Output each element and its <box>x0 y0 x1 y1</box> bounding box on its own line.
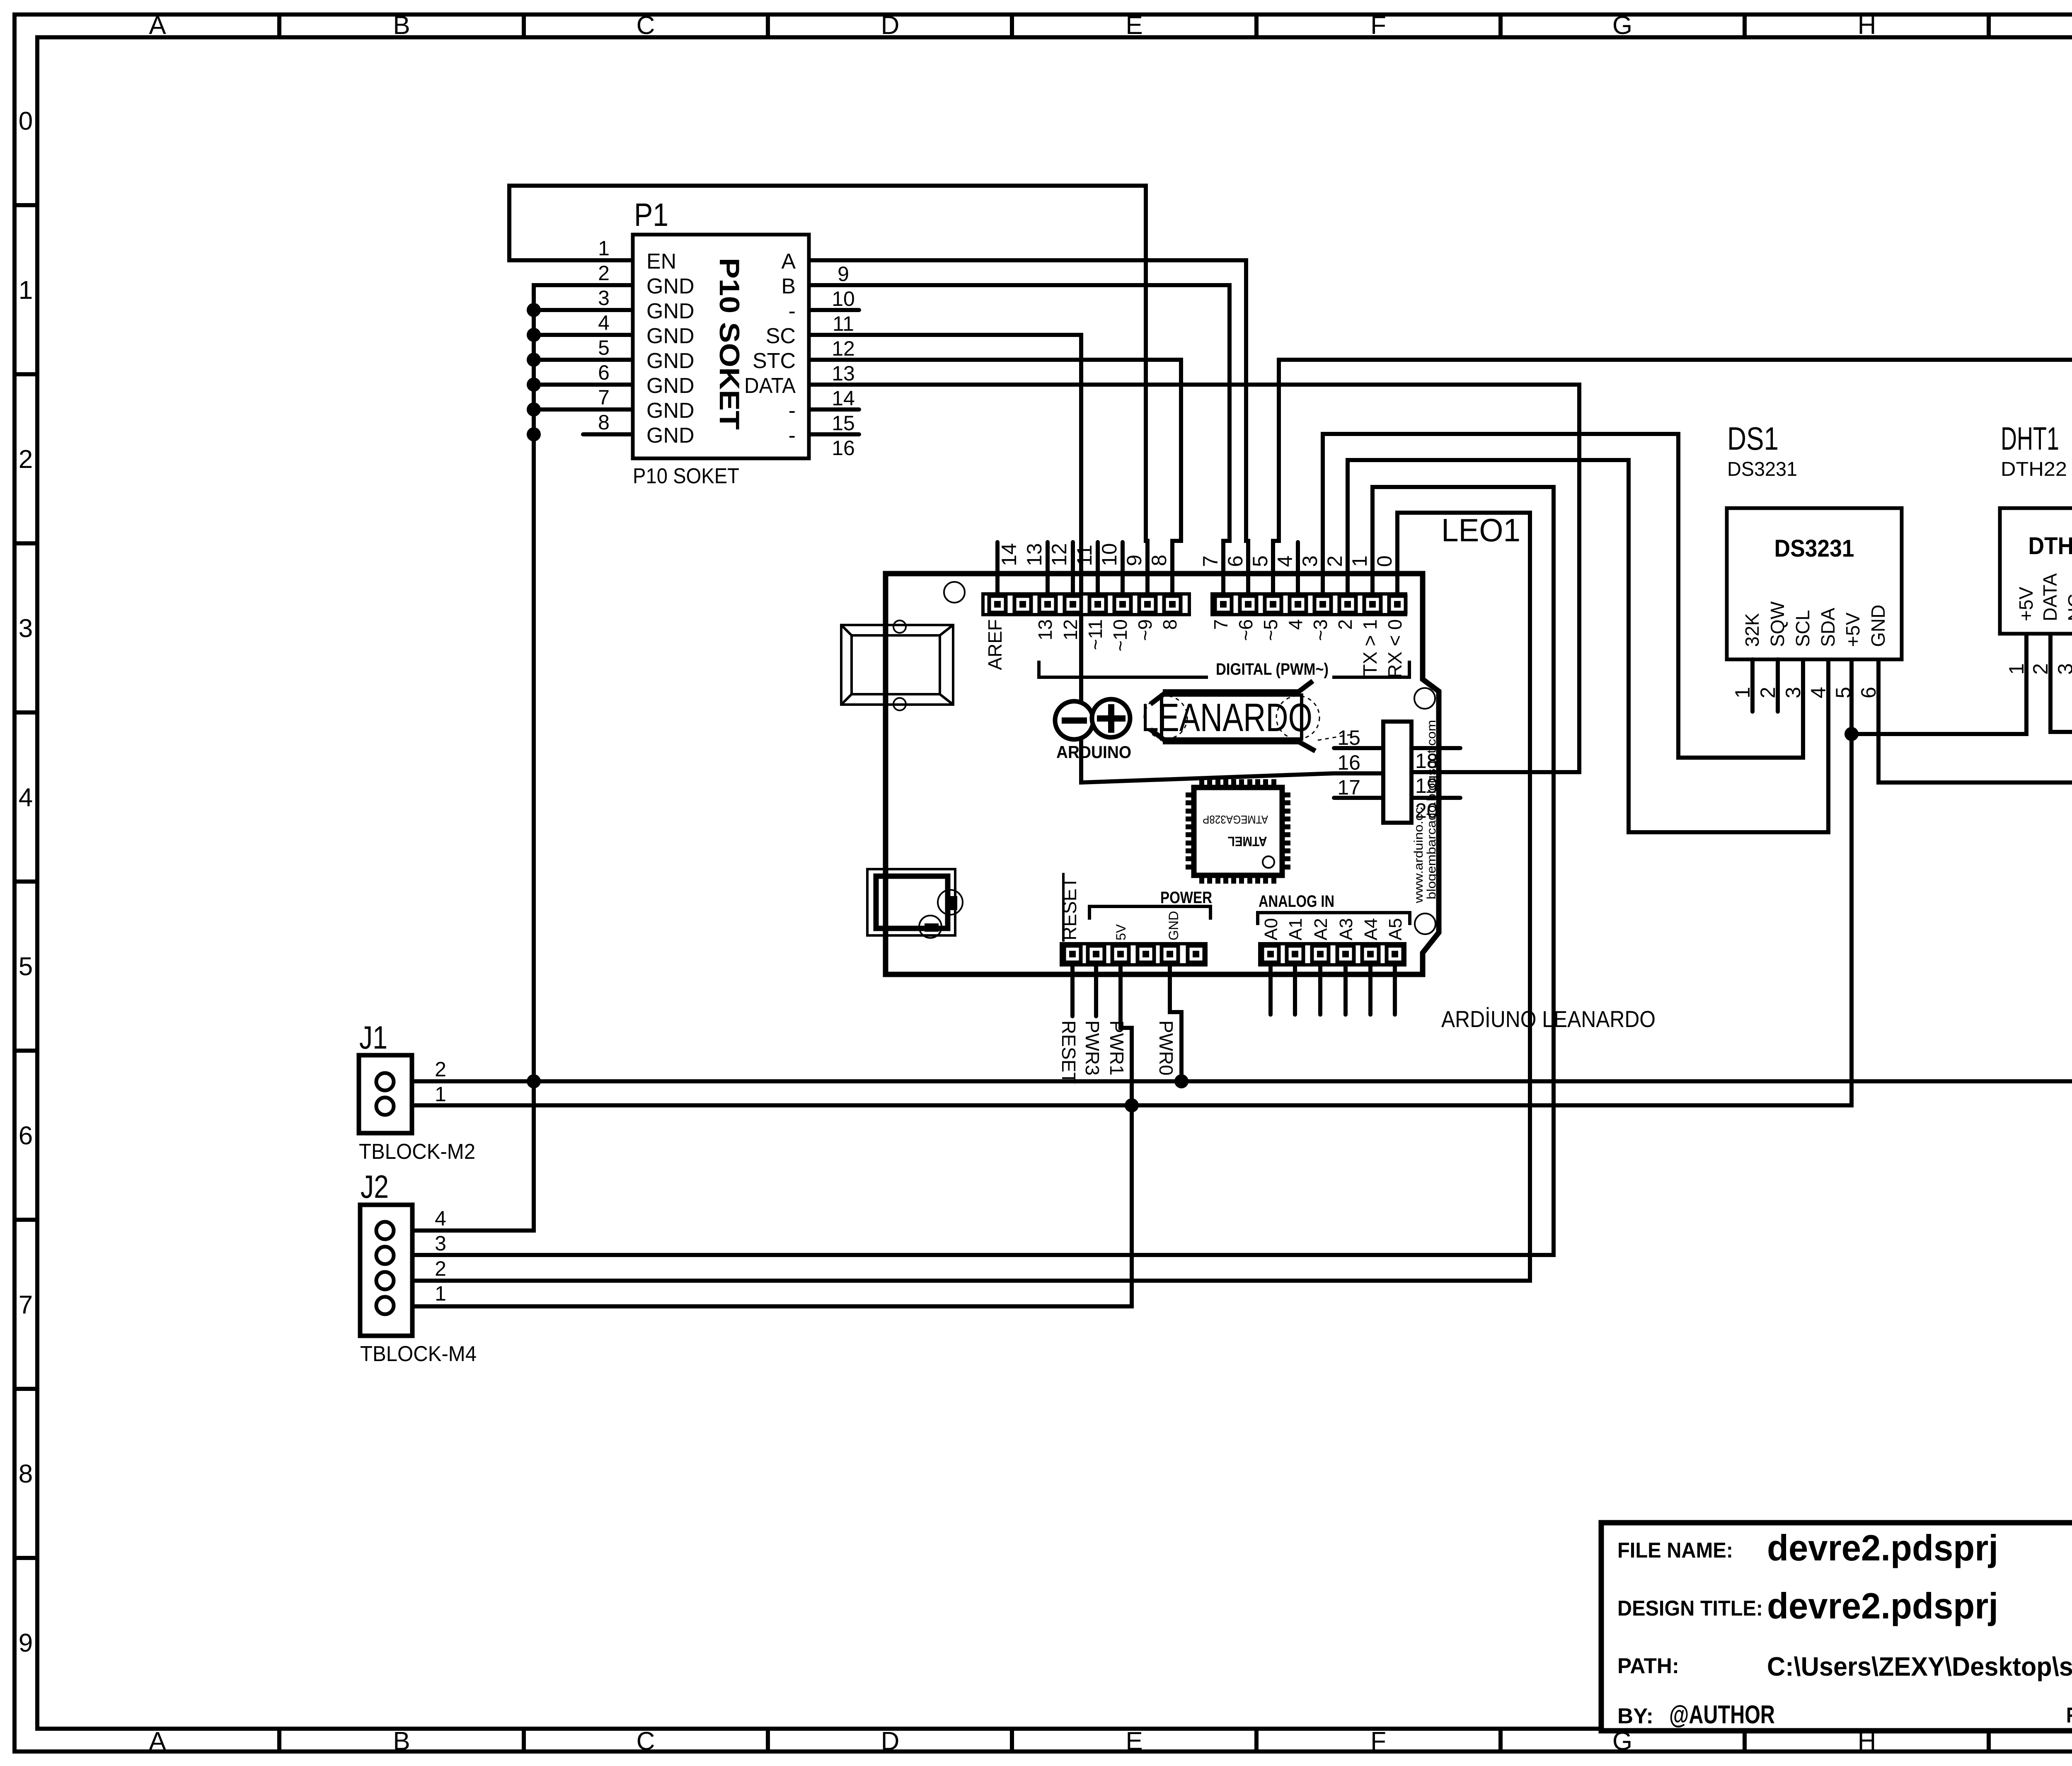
svg-text:DIGITAL (PWM~): DIGITAL (PWM~) <box>1216 660 1329 678</box>
terminal block J1 box <box>359 1055 412 1133</box>
svg-text:A: A <box>781 250 796 274</box>
svg-text:GND: GND <box>646 324 695 348</box>
svg-text:4: 4 <box>1807 687 1830 698</box>
svg-text:5: 5 <box>1249 555 1272 567</box>
svg-text:11: 11 <box>833 312 854 335</box>
wire RESET stub <box>1070 965 1075 1016</box>
svg-text:G: G <box>1612 11 1632 40</box>
wire SDA net: digital 2 (header2 pad6) to DS3231 SDA <box>1348 460 1828 832</box>
svg-text:SC: SC <box>766 324 796 348</box>
svg-text:17: 17 <box>1337 776 1360 799</box>
digital header 1 (AREF..8) <box>983 594 1189 615</box>
svg-text:0: 0 <box>19 107 33 136</box>
svg-text:LEANARDO: LEANARDO <box>1141 695 1312 740</box>
svg-text:GND: GND <box>646 424 695 448</box>
svg-text:8: 8 <box>1159 619 1181 630</box>
svg-text:2: 2 <box>1756 687 1779 698</box>
svg-text:9: 9 <box>838 262 849 286</box>
svg-text:LEO1: LEO1 <box>1441 512 1520 548</box>
svg-text:E: E <box>1126 1727 1143 1756</box>
LEANARDO logo box <box>1162 695 1302 739</box>
svg-text:D: D <box>881 1727 900 1756</box>
svg-text:1: 1 <box>435 1083 446 1106</box>
svg-text:~3: ~3 <box>1310 619 1331 641</box>
svg-text:2: 2 <box>1323 555 1346 567</box>
svg-text:B: B <box>393 11 410 40</box>
chip pin1 mark <box>1263 856 1274 868</box>
svg-text:3: 3 <box>435 1232 446 1255</box>
digital header 2 (7..0) <box>1212 594 1406 615</box>
svg-text:A2: A2 <box>1311 918 1331 940</box>
svg-text:2: 2 <box>19 445 33 474</box>
svg-text:2: 2 <box>598 262 610 285</box>
svg-text:GND: GND <box>646 299 695 323</box>
svg-text:1: 1 <box>1348 555 1371 567</box>
analog header <box>1260 944 1405 965</box>
J1 pin circles <box>376 1073 394 1090</box>
svg-text:DATA: DATA <box>2039 573 2061 621</box>
svg-text:RESET: RESET <box>1058 1020 1080 1084</box>
svg-text:14: 14 <box>832 387 855 410</box>
svg-text:3: 3 <box>598 286 610 310</box>
svg-text:GND: GND <box>646 349 695 373</box>
svg-text:2: 2 <box>435 1058 446 1081</box>
svg-text:ARDİUNO LEANARDO: ARDİUNO LEANARDO <box>1441 1006 1656 1032</box>
wire SCL net: digital ~3 (header2 pad5) to DS3231 SCL <box>1323 434 1803 758</box>
svg-text:3: 3 <box>1298 555 1322 567</box>
svg-text:0: 0 <box>1373 555 1396 567</box>
mounting hole right-upper <box>1414 688 1435 709</box>
svg-text:B: B <box>393 1727 410 1756</box>
svg-text:9: 9 <box>1123 555 1146 566</box>
svg-text:A: A <box>149 1727 166 1756</box>
svg-text:DATA: DATA <box>744 374 796 398</box>
svg-text:SQW: SQW <box>1767 601 1788 647</box>
wire STC net: P1 pin13 to digital 8 (header1 pad8) <box>809 360 1181 596</box>
svg-text:A0: A0 <box>1261 918 1281 940</box>
svg-text:15: 15 <box>832 412 855 435</box>
svg-text:3: 3 <box>2054 663 2072 675</box>
svg-text:PWR0: PWR0 <box>1155 1020 1177 1076</box>
connector P1 box <box>633 235 809 458</box>
Arduino Leonardo board outline <box>886 574 1439 974</box>
DS3231 box <box>1727 508 1902 659</box>
wire EN net: P1 pin1 to digital pad 9 (header1 pad7) <box>509 186 1147 596</box>
svg-text:POWER: POWER <box>1160 889 1212 907</box>
ANALOG IN bracket <box>1258 913 1410 925</box>
chip U ATMEGA328P body <box>1194 787 1282 875</box>
arduino logo minus circle <box>1055 701 1093 739</box>
svg-text:ARDUINO: ARDUINO <box>1056 742 1131 762</box>
svg-text:12: 12 <box>1060 619 1081 640</box>
ICSP pin18 stub <box>1411 746 1460 750</box>
svg-text:GND: GND <box>646 399 695 423</box>
svg-text:ATMEL: ATMEL <box>1228 834 1267 849</box>
svg-text:DTH22: DTH22 <box>2001 458 2067 480</box>
svg-text:4: 4 <box>598 311 610 334</box>
svg-text:~10: ~10 <box>1109 619 1131 652</box>
wire TX net: digital 1 (header2 pad7) to J2 pin3 <box>392 487 1554 1255</box>
ICSP header box <box>1383 722 1411 823</box>
svg-text:10: 10 <box>832 287 855 310</box>
svg-text:P10 SOKET: P10 SOKET <box>714 258 745 430</box>
svg-text:RX < 0: RX < 0 <box>1384 619 1406 678</box>
wire GND bus: P1 pin2 down left side to J2 pin4 <box>392 285 633 1231</box>
svg-text:8: 8 <box>598 411 610 434</box>
wire PWR3 stub <box>1094 965 1098 1016</box>
svg-text:1: 1 <box>598 237 610 260</box>
terminal block J2 box <box>360 1205 412 1336</box>
svg-text:P10 SOKET: P10 SOKET <box>633 464 739 488</box>
wire B net: P1 pin10 to digital 7 (header2 pad1) <box>809 285 1230 596</box>
ICSP pin17 stub <box>1334 796 1383 800</box>
svg-text:A3: A3 <box>1336 918 1356 940</box>
wire P1 pin8 GND stub <box>583 432 633 436</box>
svg-text:SDA: SDA <box>1817 608 1839 647</box>
logo dashed circles <box>1144 696 1187 739</box>
logo box bottom bar <box>1163 739 1300 744</box>
svg-text:6: 6 <box>1857 687 1880 698</box>
svg-text:EN: EN <box>646 250 676 274</box>
wire GND row: J1 pin2 to DHT GND junction <box>392 782 2072 1081</box>
svg-text:13: 13 <box>1034 619 1056 640</box>
POWER bracket <box>1089 906 1210 920</box>
svg-text:3: 3 <box>19 614 33 643</box>
svg-text:RESET: RESET <box>1059 877 1080 940</box>
svg-text:TBLOCK-M2: TBLOCK-M2 <box>359 1140 475 1164</box>
svg-text:H: H <box>1858 11 1876 40</box>
svg-text:2: 2 <box>2029 663 2052 675</box>
power jack <box>867 869 955 935</box>
wire A net: P1 pin9 to digital ~6 (header2 pad2) <box>809 260 1248 596</box>
svg-text:14: 14 <box>997 543 1021 566</box>
svg-text:C: C <box>637 11 655 40</box>
svg-text:5V: 5V <box>1113 924 1128 940</box>
svg-text:13: 13 <box>832 362 855 385</box>
svg-text:DS3231: DS3231 <box>1774 535 1854 562</box>
svg-text:GND: GND <box>1867 605 1889 647</box>
svg-text:16: 16 <box>1337 751 1360 774</box>
svg-text:DESIGN TITLE:: DESIGN TITLE: <box>1617 1596 1763 1621</box>
svg-text:32K: 32K <box>1741 613 1763 647</box>
svg-text:STC: STC <box>753 349 796 373</box>
digital header2 pad4 stem <box>1296 542 1300 596</box>
svg-text:6: 6 <box>598 361 610 384</box>
svg-text:7: 7 <box>1199 555 1222 567</box>
svg-text:-: - <box>789 399 796 423</box>
frame row ticks <box>12 203 39 207</box>
svg-text:E: E <box>1126 11 1143 40</box>
wire P1 pin16 stub <box>809 432 859 436</box>
analog pins A0-A5 <box>1268 965 1273 1015</box>
wire SC net: P1 pin12 to ICSP pin16 <box>809 335 1383 782</box>
svg-text:A: A <box>149 11 166 40</box>
svg-text:13: 13 <box>1023 543 1046 566</box>
svg-text:BY:: BY: <box>1617 1704 1653 1728</box>
svg-text:4: 4 <box>435 1207 446 1230</box>
arduino logo plus circle <box>1092 699 1130 737</box>
svg-text:B: B <box>781 274 796 298</box>
svg-text:4: 4 <box>19 783 33 812</box>
svg-text:GND: GND <box>646 374 695 398</box>
junction PWR1 / +5V row <box>1125 1098 1139 1112</box>
J2 pin circles <box>376 1222 394 1239</box>
wire P1 pin3 GND stub <box>534 308 633 312</box>
svg-text:www.arduino.cc: www.arduino.cc <box>1412 807 1426 904</box>
wire +5V to DHT pin1 <box>1852 634 2026 734</box>
wire GND to DS3231 GND <box>1878 659 2072 782</box>
junction +5V at DS3231 <box>1844 727 1859 741</box>
svg-text:TBLOCK-M4: TBLOCK-M4 <box>360 1342 477 1366</box>
svg-text:5: 5 <box>19 952 33 981</box>
wire DHT DATA net: digital ~5 (header2 pad3) to DHT22 DATA <box>1273 360 2072 732</box>
svg-text:9: 9 <box>19 1629 33 1657</box>
svg-text:SCL: SCL <box>1792 610 1813 647</box>
power header <box>1061 944 1206 965</box>
svg-text:1: 1 <box>435 1282 446 1305</box>
chip leads <box>1199 779 1204 787</box>
digital header1 pin stems <box>995 542 1000 596</box>
wire P1 pin4 GND stub <box>534 333 633 337</box>
svg-text:AREF: AREF <box>984 619 1006 670</box>
svg-text:DS1: DS1 <box>1727 420 1779 457</box>
svg-text:GND: GND <box>646 274 695 298</box>
wire PWR0 GND net: power pad5 down to GND row <box>1170 965 1181 1081</box>
svg-text:FILE NAME:: FILE NAME: <box>1617 1538 1733 1563</box>
junction GND bus / GND row <box>527 1074 541 1088</box>
svg-text:6: 6 <box>1224 555 1247 567</box>
svg-text:-: - <box>789 299 796 323</box>
junction PWR0 / GND row <box>1174 1074 1188 1088</box>
wire P1 pin5 GND stub <box>534 358 633 362</box>
svg-text:2: 2 <box>1334 619 1356 630</box>
svg-text:GND: GND <box>1166 911 1181 940</box>
svg-text:5: 5 <box>1832 687 1855 698</box>
svg-text:3: 3 <box>1782 687 1805 698</box>
wire P1 pin6 GND stub <box>534 383 633 387</box>
svg-text:@AUTHOR: @AUTHOR <box>1669 1701 1775 1729</box>
svg-text:11: 11 <box>1073 545 1096 566</box>
junction dots on GND bus <box>527 303 541 317</box>
svg-text:F: F <box>1370 11 1386 40</box>
DS3231 pin2 stub <box>1776 659 1780 712</box>
mounting hole top-left <box>944 582 965 603</box>
svg-text:7: 7 <box>19 1291 33 1319</box>
svg-text:7: 7 <box>1210 619 1232 630</box>
svg-text:J1: J1 <box>359 1019 387 1056</box>
svg-text:NC: NC <box>2064 594 2072 621</box>
svg-text:A1: A1 <box>1285 918 1306 940</box>
svg-text:DTH22: DTH22 <box>2028 533 2072 560</box>
svg-text:15: 15 <box>1337 726 1360 749</box>
USB connector <box>841 625 953 705</box>
svg-text:P1: P1 <box>634 196 668 233</box>
ICSP pin20 stub <box>1411 796 1460 800</box>
svg-text:4: 4 <box>1285 619 1306 630</box>
svg-text:8: 8 <box>1147 555 1171 566</box>
svg-text:12: 12 <box>832 337 855 360</box>
svg-text:-: - <box>789 424 796 448</box>
logo box top bar <box>1163 689 1300 694</box>
svg-text:DHT1: DHT1 <box>2001 420 2059 457</box>
svg-text:C:\Users\ZEXY\Desktop\son dene: C:\Users\ZEXY\Desktop\son deneme\devre 2… <box>1767 1652 2072 1681</box>
wire P1 pin11 stub <box>809 308 859 312</box>
svg-text:F: F <box>1370 1727 1386 1756</box>
svg-text:D: D <box>881 11 900 40</box>
svg-text:DS3231: DS3231 <box>1727 458 1797 480</box>
svg-text:devre2.pdsprj: devre2.pdsprj <box>1767 1585 1998 1626</box>
svg-text:PWR1: PWR1 <box>1106 1020 1128 1076</box>
svg-text:C: C <box>637 1727 655 1756</box>
wire P1 pin7 GND stub <box>534 407 633 412</box>
svg-text:J2: J2 <box>361 1168 389 1205</box>
DTH22 box <box>2000 508 2072 634</box>
mounting hole right-lower <box>1415 913 1435 934</box>
svg-text:16: 16 <box>832 436 855 460</box>
svg-text:2: 2 <box>435 1257 446 1280</box>
svg-text:~9: ~9 <box>1134 619 1156 641</box>
wire RX net: digital 0 (header2 pad8) to J2 pin2 <box>392 513 1530 1281</box>
svg-text:~11: ~11 <box>1084 619 1106 650</box>
svg-text:4: 4 <box>1273 555 1297 567</box>
svg-text:~6: ~6 <box>1235 619 1256 641</box>
wire +5V row: J1 pin1 to DS junction <box>392 659 1852 1105</box>
svg-text:1: 1 <box>19 276 33 305</box>
wire P1 pin15 stub <box>809 407 859 412</box>
svg-text:8: 8 <box>19 1460 33 1488</box>
svg-text:ANALOG IN: ANALOG IN <box>1259 892 1334 911</box>
svg-text:A5: A5 <box>1385 918 1406 940</box>
svg-text:A4: A4 <box>1361 918 1381 940</box>
svg-text:PWR3: PWR3 <box>1082 1020 1103 1076</box>
svg-text:PATH:: PATH: <box>1617 1654 1679 1678</box>
svg-text:REV:: REV: <box>2066 1703 2072 1727</box>
svg-text:1: 1 <box>1731 687 1754 698</box>
svg-text:+5V: +5V <box>1842 613 1864 647</box>
svg-text:6: 6 <box>19 1122 33 1150</box>
wire DATA net: P1 pin14 to ICSP pin19 <box>809 385 1579 772</box>
svg-text:~5: ~5 <box>1260 619 1281 641</box>
svg-text:1: 1 <box>2005 663 2028 675</box>
ICSP pin15 stub <box>1334 746 1383 750</box>
svg-text:10: 10 <box>1098 543 1121 566</box>
title block outer box <box>1601 1523 2072 1731</box>
svg-text:blogembarcado.blogspot.com: blogembarcado.blogspot.com <box>1425 720 1438 899</box>
svg-text:5: 5 <box>598 336 610 359</box>
DS3231 pin1 stub <box>1750 659 1755 712</box>
frame column ticks <box>277 12 281 39</box>
svg-text:7: 7 <box>598 386 610 409</box>
wire PWR1 5V net: power pad3 down to +5V row and J2 pin1 <box>392 965 1132 1306</box>
svg-text:ATMEGA328P: ATMEGA328P <box>1203 813 1268 826</box>
svg-text:12: 12 <box>1048 543 1071 566</box>
svg-text:devre2.pdsprj: devre2.pdsprj <box>1767 1527 1998 1568</box>
DIGITAL (PWM~) bracket <box>1039 661 1208 677</box>
svg-text:+5V: +5V <box>2015 587 2037 621</box>
svg-text:TX > 1: TX > 1 <box>1359 619 1381 676</box>
